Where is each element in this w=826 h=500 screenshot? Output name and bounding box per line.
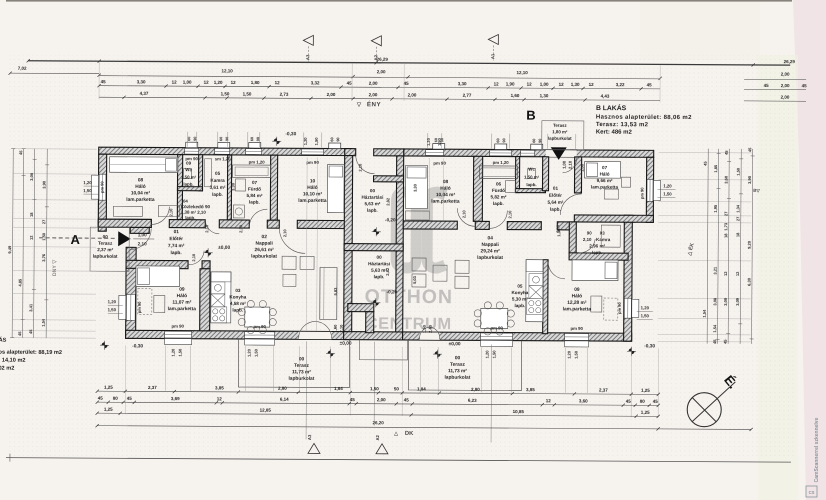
- svg-text:2,10: 2,10: [583, 237, 592, 242]
- wall exterior bottom B: [403, 332, 632, 341]
- wall middle inner bottom v: [366, 312, 374, 333]
- window right wall Halo07 B: [647, 179, 653, 201]
- svg-text:1,85: 1,85: [713, 164, 718, 173]
- svg-text:△: △: [393, 431, 398, 437]
- svg-text:08: 08: [138, 177, 144, 183]
- svg-text:12,28 m²: 12,28 m²: [567, 300, 587, 306]
- svg-text:2,10: 2,10: [339, 324, 344, 333]
- svg-text:1,60: 1,60: [333, 324, 338, 333]
- svg-text:3,21: 3,21: [713, 266, 718, 275]
- terrace door opening B: [420, 332, 440, 339]
- wall wall y219 A seg2: [169, 220, 205, 228]
- svg-text:3,69: 3,69: [171, 396, 180, 401]
- window bottom Nappali A: [245, 332, 275, 339]
- svg-text:1,90: 1,90: [506, 82, 515, 87]
- svg-text:45: 45: [404, 81, 410, 86]
- svg-text:lapb.: lapb.: [514, 303, 525, 308]
- wall wall below Halo08 A: [98, 219, 151, 227]
- svg-text:Közlekedő 90: Közlekedő 90: [181, 204, 211, 209]
- svg-text:12: 12: [172, 80, 178, 85]
- svg-text:Nappali: Nappali: [255, 241, 272, 247]
- window Kamra A: [215, 148, 230, 154]
- svg-text:CS: CS: [809, 490, 815, 495]
- svg-text:3,85: 3,85: [526, 387, 535, 392]
- svg-text:1,25: 1,25: [641, 410, 650, 415]
- window left wall Halo08 A: [99, 174, 106, 200]
- wall WC|Kamra A: [198, 155, 202, 191]
- svg-text:2,82: 2,82: [385, 267, 390, 276]
- svg-text:A3: A3: [305, 54, 310, 60]
- svg-text:lapburkolat: lapburkolat: [444, 375, 470, 381]
- svg-text:lam.parketta: lam.parketta: [168, 306, 197, 312]
- bed Halo09 B: [572, 260, 618, 281]
- wall Halo09 top A right: [202, 261, 210, 269]
- extension lines corners bottom: [124, 345, 126, 414]
- shelf Kamra A: [205, 159, 212, 187]
- svg-text:lapb.: lapb.: [592, 250, 602, 255]
- step between terraces: [360, 340, 408, 360]
- svg-text:1,84: 1,84: [334, 386, 343, 391]
- window Furdo B: [490, 150, 512, 156]
- svg-text:±0,00: ±0,00: [449, 341, 461, 347]
- wall wall y219 B seg4: [557, 222, 574, 230]
- svg-text:1,50: 1,50: [437, 137, 442, 146]
- wall WC|Eloter B: [542, 157, 548, 191]
- dining table B: [481, 308, 508, 328]
- wall exterior top room07: [571, 150, 654, 157]
- svg-text:12: 12: [275, 80, 281, 85]
- svg-text:Wc: Wc: [528, 167, 535, 172]
- wall middle top left piece: [345, 149, 356, 156]
- door arc Eloter B: [560, 194, 581, 215]
- window bottom Halo09 B: [565, 333, 589, 340]
- svg-text:Kamra: Kamra: [596, 237, 611, 242]
- svg-text:3,30: 3,30: [230, 182, 235, 191]
- section marker A2 top: [371, 36, 381, 46]
- right dim columns: [707, 149, 708, 344]
- svg-text:45: 45: [626, 399, 632, 404]
- svg-text:ÁS: ÁS: [0, 337, 7, 344]
- svg-text:3,00: 3,00: [723, 297, 728, 306]
- svg-text:1,50: 1,50: [492, 350, 497, 359]
- svg-text:lapb.: lapb.: [367, 208, 378, 213]
- wall exterior left lower A: [126, 247, 137, 338]
- svg-text:A: A: [70, 232, 80, 247]
- svg-text:2,00: 2,00: [377, 397, 386, 402]
- svg-text:-0,20: -0,20: [387, 289, 398, 294]
- svg-text:1,20: 1,20: [303, 137, 308, 146]
- svg-text:▽: ▽: [356, 102, 362, 108]
- svg-text:09: 09: [186, 161, 191, 166]
- level mark haztartasi top: [372, 227, 381, 236]
- svg-text:A2: A2: [375, 434, 380, 440]
- svg-text:1,00: 1,00: [183, 80, 192, 85]
- svg-text:26,20: 26,20: [372, 420, 384, 425]
- svg-text:1,20: 1,20: [485, 350, 490, 359]
- svg-text:1,20: 1,20: [171, 348, 176, 357]
- svg-text:10,04 m²: 10,04 m²: [436, 192, 456, 198]
- top scan edge: [6, 0, 792, 2]
- svg-text:02 m2: 02 m2: [0, 366, 14, 372]
- svg-text:lam.parketta: lam.parketta: [591, 185, 619, 190]
- svg-text:90: 90: [336, 137, 340, 141]
- svg-text:90: 90: [225, 137, 229, 141]
- svg-text:3,09: 3,09: [735, 297, 740, 306]
- svg-text:lapb.: lapb.: [183, 182, 193, 187]
- wall middle top right piece: [374, 149, 404, 156]
- svg-text:45: 45: [802, 83, 808, 88]
- scanner background right strip: [793, 0, 826, 500]
- svg-text:2,37: 2,37: [599, 388, 608, 393]
- extension lines bottom: [164, 346, 166, 391]
- green tint streak: [758, 55, 798, 500]
- wall wall y219 A seg4: [267, 220, 279, 228]
- svg-text:9,20: 9,20: [747, 240, 752, 249]
- svg-text:CENTRUM: CENTRUM: [366, 315, 452, 333]
- svg-text:B▽: B▽: [753, 188, 760, 193]
- svg-text:7,02: 7,02: [18, 66, 27, 71]
- svg-text:lapb.: lapb.: [212, 192, 223, 197]
- svg-text:2,00: 2,00: [369, 81, 378, 86]
- svg-text:45: 45: [350, 397, 356, 402]
- window bottom Nappali B: [481, 333, 513, 340]
- window bottom Halo09 A: [165, 331, 192, 338]
- wall Eloter|Halo07 B upper: [574, 157, 581, 193]
- bottom dim row 2: [97, 402, 658, 405]
- svg-text:lapb.: lapb.: [493, 201, 504, 206]
- bed Halo09 A: [136, 266, 180, 287]
- svg-text:lapb.: lapb.: [550, 207, 561, 212]
- svg-text:1,50: 1,50: [178, 348, 183, 357]
- svg-text:Fürdő: Fürdő: [248, 187, 261, 192]
- door arc terrace A right leaf: [316, 321, 332, 338]
- svg-text:lapb.: lapb.: [171, 250, 182, 256]
- svg-text:1,50: 1,50: [663, 191, 672, 196]
- svg-text:pm 1,20: pm 1,20: [249, 160, 266, 165]
- bottom dim row 3: [97, 413, 658, 416]
- svg-text:04: 04: [183, 199, 188, 204]
- svg-text:10,85: 10,85: [513, 409, 525, 414]
- svg-text:12,85: 12,85: [260, 408, 272, 413]
- svg-text:DNY ▽: DNY ▽: [52, 259, 58, 276]
- svg-text:01: 01: [553, 186, 559, 191]
- svg-text:80: 80: [113, 396, 119, 401]
- svg-text:lam.parketta: lam.parketta: [431, 199, 460, 205]
- svg-text:1,54: 1,54: [41, 318, 46, 327]
- svg-text:26,29: 26,29: [784, 59, 796, 64]
- svg-text:1,50 m²: 1,50 m²: [524, 175, 540, 180]
- svg-text:29,24 m²: 29,24 m²: [481, 248, 501, 254]
- wall exterior right upper B (room07): [646, 157, 653, 222]
- wall entry jog wall A: [130, 227, 149, 233]
- svg-text:45: 45: [404, 397, 410, 402]
- svg-text:12: 12: [204, 80, 210, 85]
- svg-text:26,61 m²: 26,61 m²: [255, 247, 275, 253]
- svg-text:sm 1,20: sm 1,20: [215, 156, 231, 161]
- svg-text:45: 45: [647, 82, 653, 87]
- svg-text:1,20: 1,20: [83, 180, 92, 185]
- svg-text:1,54: 1,54: [702, 309, 707, 318]
- svg-text:lapb.: lapb.: [232, 307, 243, 312]
- svg-text:3,85: 3,85: [215, 385, 224, 390]
- svg-text:1,38 m² 2,10: 1,38 m² 2,10: [181, 210, 206, 215]
- wall exterior bottom A: [126, 330, 351, 339]
- svg-text:12: 12: [527, 82, 533, 87]
- svg-text:45: 45: [764, 83, 770, 88]
- svg-text:lapb.: lapb.: [374, 274, 385, 279]
- svg-text:1,25: 1,25: [641, 388, 650, 393]
- svg-text:2,80: 2,80: [471, 387, 480, 392]
- wardrobe Halo08 A: [158, 206, 179, 217]
- wall middle inner top: [374, 176, 404, 182]
- svg-text:1,20: 1,20: [426, 137, 431, 146]
- terrace door opening A: [299, 332, 332, 339]
- svg-text:lapburkolat: lapburkolat: [93, 254, 118, 259]
- svg-text:B: B: [526, 108, 535, 123]
- svg-text:3,90: 3,90: [747, 175, 752, 184]
- svg-text:B LAKÁS: B LAKÁS: [596, 103, 627, 112]
- section lines through plan: [305, 341, 308, 439]
- extension lines top: [187, 132, 189, 147]
- svg-text:DK: DK: [405, 431, 414, 437]
- svg-text:60: 60: [219, 137, 223, 141]
- svg-text:Terasz: 13,53 m2: Terasz: 13,53 m2: [596, 122, 649, 128]
- svg-text:: 14,10 m2: : 14,10 m2: [0, 358, 26, 364]
- svg-text:3,30: 3,30: [137, 79, 146, 84]
- svg-text:pm 90: pm 90: [137, 301, 142, 313]
- svg-text:±0,00: ±0,00: [218, 245, 230, 251]
- svg-text:Előtér: Előtér: [549, 193, 562, 198]
- svg-text:5,63 m²: 5,63 m²: [364, 201, 380, 206]
- wall wall y219 B seg2: [475, 221, 489, 229]
- svg-text:1,50: 1,50: [221, 91, 230, 96]
- svg-text:1,54: 1,54: [712, 324, 717, 333]
- svg-text:60: 60: [250, 137, 254, 141]
- watermark OTTHON CENTRUM: [365, 286, 454, 334]
- wall middle inner bottom h: [348, 304, 374, 312]
- wall exterior left upper A: [98, 154, 106, 231]
- svg-text:pm 90: pm 90: [185, 156, 198, 161]
- plot boundary bottom line: [6, 458, 791, 463]
- svg-text:Hasznos alapterület: 88,06 m2: Hasznos alapterület: 88,06 m2: [596, 115, 692, 122]
- svg-text:3,76: 3,76: [41, 253, 46, 262]
- top dimension detail row 2: [99, 97, 660, 100]
- entry terrace outline A: [90, 227, 129, 271]
- basin Furdo A: [235, 179, 245, 191]
- svg-text:1,00: 1,00: [540, 82, 549, 87]
- svg-text:50: 50: [394, 386, 400, 391]
- svg-text:1,25: 1,25: [104, 407, 113, 412]
- door arc terrace A left leaf: [299, 321, 316, 338]
- svg-text:pm 90: pm 90: [490, 325, 503, 330]
- svg-text:1,20: 1,20: [567, 350, 572, 359]
- svg-text:-0,30: -0,30: [132, 343, 143, 349]
- svg-text:lam.parketta: lam.parketta: [563, 306, 592, 312]
- svg-text:2,37 m²: 2,37 m²: [97, 247, 113, 252]
- basin Furdo B: [505, 181, 515, 193]
- dining table A: [245, 307, 270, 327]
- svg-text:3,08: 3,08: [712, 297, 717, 306]
- svg-text:Konyha: Konyha: [229, 294, 246, 299]
- washing machine Furdo A: [233, 205, 244, 218]
- svg-text:Háztartási: Háztartási: [361, 195, 383, 200]
- door arc terrace B left leaf: [420, 327, 430, 339]
- svg-text:10: 10: [310, 178, 316, 184]
- svg-text:2,10: 2,10: [507, 210, 512, 219]
- svg-text:2,00: 2,00: [327, 92, 336, 97]
- bed Halo08 B: [405, 165, 427, 208]
- watermark OC logo: [396, 192, 445, 268]
- section marker A2 bottom: [376, 444, 388, 454]
- wardrobe Halo09 B: [604, 298, 618, 320]
- svg-text:os alapterület: 88,19 m2: os alapterület: 88,19 m2: [0, 350, 62, 356]
- svg-text:1,50 m²: 1,50 m²: [181, 175, 197, 180]
- wall Furdo|Halo10 A: [270, 155, 277, 220]
- svg-text:pm 90: pm 90: [617, 302, 622, 314]
- svg-text:2,00: 2,00: [781, 83, 790, 88]
- svg-text:pm 90: pm 90: [570, 326, 583, 331]
- svg-text:2,10: 2,10: [358, 163, 363, 172]
- svg-text:09: 09: [179, 287, 185, 293]
- svg-text:1,50: 1,50: [254, 348, 259, 357]
- wardrobe Halo08 B: [405, 211, 429, 220]
- svg-text:3,60: 3,60: [724, 175, 729, 184]
- svg-text:90: 90: [502, 138, 506, 142]
- svg-text:A3: A3: [307, 434, 312, 440]
- wall exterior right lower B: [624, 215, 633, 341]
- svg-text:60: 60: [330, 137, 334, 141]
- svg-text:11,07 m²: 11,07 m²: [172, 300, 191, 306]
- svg-text:pm 1,20: pm 1,20: [493, 160, 510, 165]
- bed Halo10 A: [327, 164, 344, 212]
- wall Elo wall A: [98, 219, 151, 227]
- svg-text:00: 00: [377, 255, 383, 260]
- bottom dim row 1: [97, 391, 658, 394]
- terrace A outline: [238, 339, 349, 388]
- svg-text:Terasz: Terasz: [98, 241, 113, 246]
- svg-text:1,50: 1,50: [83, 188, 92, 193]
- svg-text:lam.parketta: lam.parketta: [126, 197, 155, 203]
- svg-text:2,10: 2,10: [461, 210, 466, 219]
- svg-text:lapb.: lapb.: [185, 215, 195, 220]
- window Halo10 A: [302, 149, 324, 155]
- svg-text:-0,30: -0,30: [285, 131, 296, 137]
- svg-text:1,80 m²: 1,80 m²: [552, 129, 568, 134]
- door arc Furdo B: [489, 210, 507, 228]
- door arc terrace B right leaf: [430, 327, 440, 339]
- svg-text:05: 05: [517, 284, 523, 289]
- svg-text:1,73: 1,73: [723, 222, 728, 231]
- door arc Halo09 A: [188, 251, 204, 265]
- svg-text:2,00: 2,00: [377, 69, 386, 74]
- svg-text:6,30: 6,30: [746, 277, 751, 286]
- wall Kamra left B: [569, 222, 576, 253]
- svg-text:Háló: Háló: [177, 293, 187, 299]
- door arc Kamra A: [205, 220, 219, 234]
- svg-text:Konyha: Konyha: [511, 290, 528, 295]
- svg-text:00: 00: [455, 355, 461, 361]
- svg-text:60: 60: [496, 138, 500, 142]
- door arc middle strip top: [356, 156, 375, 174]
- door arc Halo08 A: [151, 206, 169, 224]
- wall WC bottom A: [177, 187, 202, 191]
- armchairs Nappali B: [412, 258, 426, 271]
- window WC B: [521, 150, 535, 156]
- svg-text:9,66 m²: 9,66 m²: [597, 178, 613, 183]
- svg-text:4,58 m²: 4,58 m²: [230, 301, 246, 306]
- svg-text:00: 00: [370, 188, 376, 193]
- svg-text:2,96 m²: 2,96 m²: [589, 243, 605, 248]
- level mark bottom right B: [627, 347, 636, 356]
- door arc Kamra B: [579, 239, 595, 253]
- svg-text:5,64 m²: 5,64 m²: [547, 200, 563, 205]
- wall wall y219 A seg5: [297, 220, 351, 228]
- svg-text:1,50: 1,50: [641, 313, 650, 318]
- svg-text:2,00: 2,00: [781, 72, 790, 77]
- svg-text:3,30: 3,30: [412, 183, 417, 192]
- wall Halo09|Konyha A: [200, 269, 210, 331]
- svg-text:12: 12: [494, 81, 500, 86]
- svg-text:3,30: 3,30: [458, 81, 467, 86]
- section marker A3 top: [303, 35, 313, 45]
- svg-text:pm 90: pm 90: [171, 324, 184, 329]
- svg-text:1,50: 1,50: [41, 232, 46, 241]
- svg-text:1,50: 1,50: [243, 91, 252, 96]
- svg-text:1,00: 1,00: [138, 232, 147, 237]
- bed Halo08 A: [110, 157, 178, 173]
- svg-text:2,00: 2,00: [781, 95, 790, 100]
- level mark bottom left A: [100, 341, 109, 350]
- svg-text:4,43: 4,43: [601, 94, 610, 99]
- svg-text:lapb.: lapb.: [526, 182, 536, 187]
- wall exterior bottom middle: [344, 332, 403, 340]
- svg-text:3,61 m²: 3,61 m²: [210, 185, 226, 190]
- svg-text:pm 90: pm 90: [99, 181, 104, 193]
- svg-text:01: 01: [174, 229, 180, 235]
- terrace B outline: [408, 340, 521, 391]
- wall Konyha|Halo09 B: [543, 260, 548, 334]
- svg-text:Terasz: Terasz: [450, 362, 465, 368]
- section marker A3 bottom: [308, 443, 320, 453]
- svg-text:12: 12: [231, 80, 237, 85]
- sofa Nappali A: [320, 267, 337, 319]
- kitchen counter A: [211, 272, 231, 323]
- svg-text:80: 80: [640, 399, 646, 404]
- svg-text:5,03: 5,03: [412, 275, 417, 284]
- svg-text:5,30 m²: 5,30 m²: [512, 297, 528, 302]
- svg-text:1,50: 1,50: [422, 324, 427, 333]
- wardrobe dashed Halo09 A: [138, 288, 152, 314]
- svg-text:2,77: 2,77: [463, 93, 472, 98]
- svg-text:lapburkolat: lapburkolat: [251, 254, 277, 260]
- svg-text:2,10: 2,10: [138, 241, 147, 246]
- svg-text:Kamra: Kamra: [210, 178, 225, 183]
- wall Furdo|WC B: [515, 157, 519, 193]
- door arc Halo08 B: [457, 208, 475, 226]
- svg-text:12: 12: [559, 82, 565, 87]
- svg-text:lapburkolat: lapburkolat: [548, 136, 572, 141]
- svg-text:45: 45: [98, 396, 104, 401]
- level mark haztartasi bottom: [371, 298, 380, 307]
- svg-text:5,82 m²: 5,82 m²: [491, 194, 507, 199]
- svg-text:1,30: 1,30: [571, 82, 580, 87]
- svg-text:lam.parketta: lam.parketta: [298, 198, 327, 204]
- svg-text:1,50: 1,50: [370, 386, 379, 391]
- svg-text:7,74 m²: 7,74 m²: [168, 243, 185, 249]
- svg-text:lapburkolat: lapburkolat: [288, 376, 314, 382]
- svg-text:Háló: Háló: [440, 186, 450, 192]
- wall Halo09 top A: [126, 260, 188, 268]
